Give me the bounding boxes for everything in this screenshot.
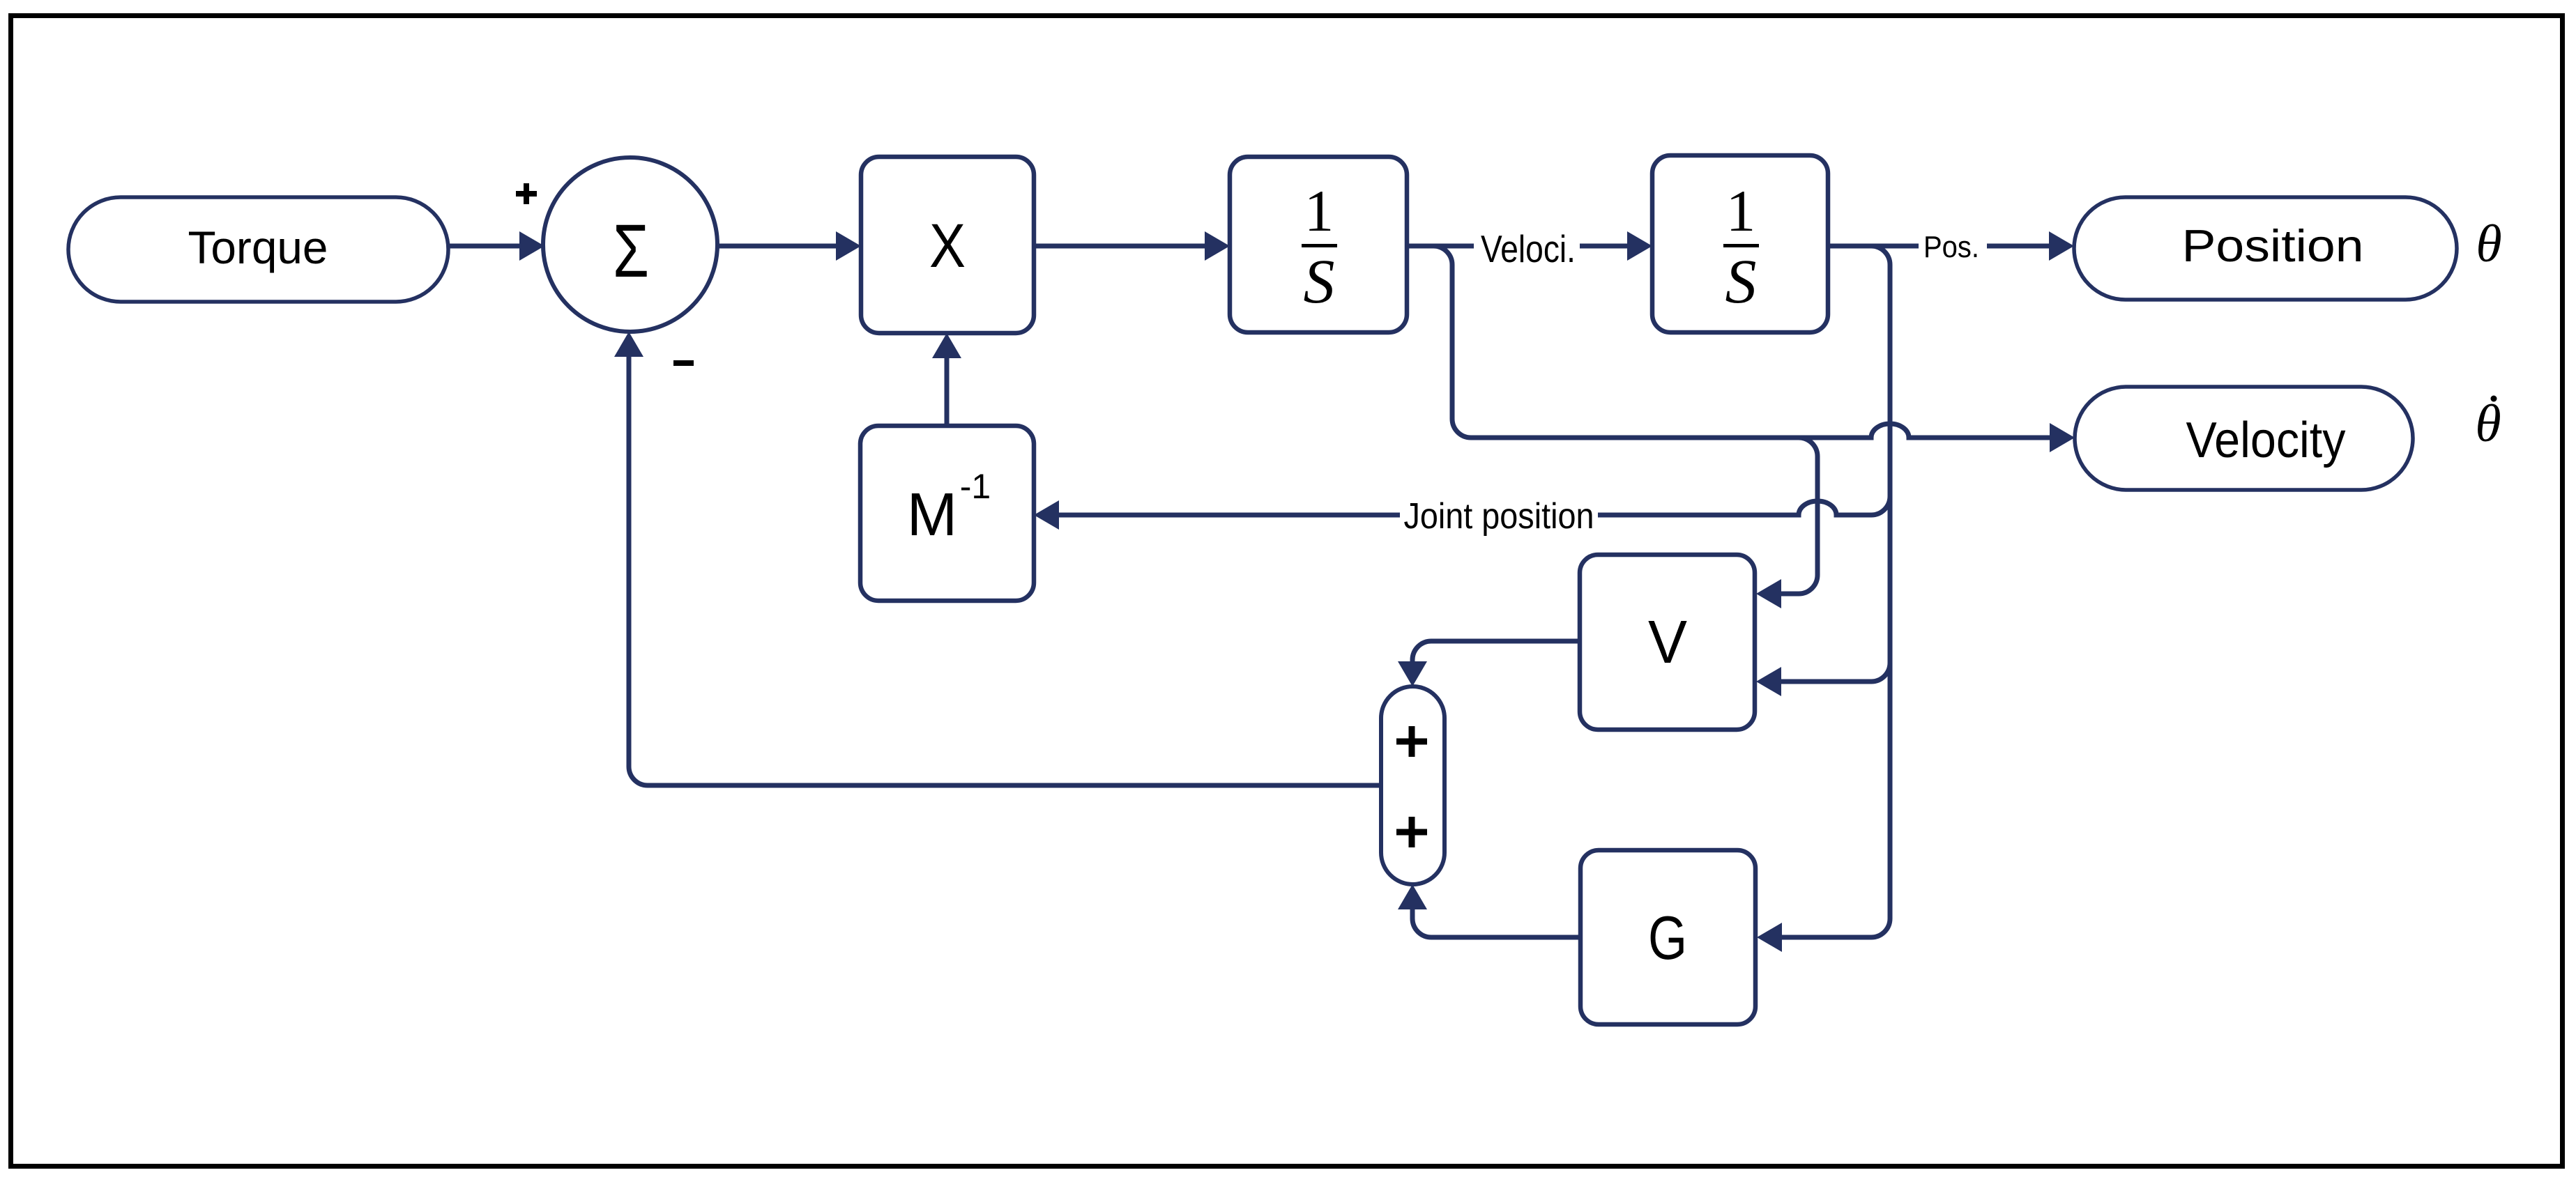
- Position stadium: [2074, 197, 2457, 300]
- svg-text:Position: Position: [2182, 220, 2364, 271]
- plus sign top in capsule: [1396, 726, 1427, 757]
- arrowhead into V top-right input: [1756, 579, 1781, 608]
- block V (velocity coupling): [1580, 555, 1755, 730]
- svg-text:Joint position: Joint position: [1404, 496, 1594, 537]
- wire: M inverse up to X: [945, 357, 950, 426]
- wire: G output to summing capsule bottom: [1412, 908, 1580, 937]
- block integrator 2 (1/S): [1652, 155, 1828, 332]
- arrowhead into sigma left: [519, 231, 544, 261]
- Velocity stadium: [2075, 387, 2413, 490]
- svg-text:Σ: Σ: [613, 208, 649, 293]
- arrowhead into Position stadium: [2049, 231, 2074, 261]
- wire: V bottom input branch from line A: [1781, 663, 1890, 682]
- arrowhead into V bottom-right input: [1756, 667, 1781, 696]
- svg-text:S: S: [1725, 247, 1757, 316]
- arrowhead into X bottom: [932, 333, 961, 358]
- arrowhead into Velocity stadium: [2050, 423, 2075, 452]
- block X (inertia multiply): [861, 157, 1034, 333]
- wire: integrator 2 output to Position with branch down at x2711: [1828, 244, 2050, 249]
- wire: sigma to X: [717, 244, 837, 249]
- svg-text:S: S: [1304, 247, 1335, 316]
- arrowhead into capsule bottom: [1398, 884, 1427, 909]
- arrowhead into M inverse right input: [1034, 500, 1059, 530]
- arrowhead into integrator 1: [1205, 231, 1230, 261]
- arrowhead into G right input: [1757, 923, 1782, 952]
- summing capsule (plus plus): [1381, 686, 1445, 884]
- svg-text:1: 1: [1304, 178, 1334, 244]
- plus sign at sigma input: [516, 183, 537, 204]
- wire: integrator 1 output with branch down at x2083 (node velocity tap): [1407, 244, 1629, 249]
- block integrator 1 (1/S): [1230, 157, 1407, 332]
- svg-text:G: G: [1648, 903, 1687, 972]
- label Pos. on wire: [1919, 224, 1987, 266]
- label Joint position on wire: [1400, 492, 1598, 539]
- svg-text:V: V: [1648, 608, 1687, 676]
- svg-text:θ: θ: [2476, 215, 2501, 273]
- svg-text:X: X: [929, 210, 966, 280]
- svg-text:Veloci.: Veloci.: [1481, 227, 1576, 270]
- wire: branch down from velocity tap, runs to Velocity stadium with hop over line A: [1433, 246, 2051, 438]
- wire: X to integrator 1: [1034, 244, 1206, 249]
- wire: line B from velocity wire down to V top input: [1781, 438, 1817, 594]
- svg-text:M: M: [907, 481, 957, 548]
- svg-text:Pos.: Pos.: [1923, 230, 1979, 264]
- block G (gravity): [1580, 850, 1755, 1024]
- wire: line A vertical position feedback from x2711 down to G with corner: [1782, 246, 1890, 937]
- arrowhead into sigma bottom: [614, 332, 643, 357]
- wire: V output to summing capsule top: [1412, 641, 1580, 663]
- arrowhead into capsule top: [1398, 661, 1427, 686]
- svg-text:Torque: Torque: [188, 222, 328, 273]
- minus sign at sigma lower input: [673, 360, 694, 366]
- wire: Torque to sigma: [448, 244, 521, 249]
- svg-text:Velocity: Velocity: [2186, 413, 2346, 468]
- arrowhead into X left: [836, 231, 861, 261]
- wire: feedback from summing capsule to sigma (minus input): [629, 355, 1381, 785]
- Torque stadium: [68, 197, 448, 302]
- label Veloci. on wire: [1474, 223, 1580, 268]
- block M inverse: [860, 426, 1034, 601]
- wire: joint position branch from line A to M inverse: [1059, 496, 1890, 515]
- svg-text:-1: -1: [960, 467, 991, 506]
- summation circle sigma: [543, 157, 717, 332]
- svg-text:1: 1: [1726, 178, 1756, 244]
- plus sign bottom in capsule: [1396, 817, 1427, 847]
- svg-text:θ: θ: [2475, 394, 2501, 453]
- arrowhead into integrator 2: [1627, 231, 1652, 261]
